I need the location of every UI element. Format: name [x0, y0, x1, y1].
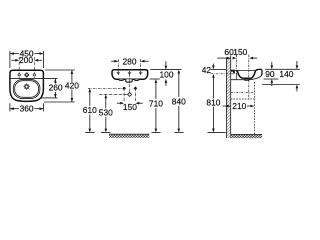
bowl section [237, 71, 255, 79]
svg-text:280: 280 [123, 56, 137, 66]
wall face extension tick [230, 55, 232, 57]
svg-text:150: 150 [123, 102, 137, 112]
rim extension left [211, 68, 227, 70]
dim 280 [111, 60, 149, 62]
side view labels [202, 47, 294, 111]
drain plan [23, 83, 30, 90]
svg-text:200: 200 [19, 55, 33, 65]
dim 420 extension lines [44, 70, 75, 102]
drain axis vertical [129, 74, 131, 92]
tap hole left [18, 74, 20, 76]
tap hole center [25, 73, 29, 77]
bowl outer [13, 79, 40, 98]
dim 260 bottom extension [40, 97, 58, 99]
dim 90 arrows [271, 62, 273, 66]
basin underside [231, 76, 261, 80]
dim 810 [212, 74, 215, 78]
bowl inner [15, 81, 39, 98]
deck top line [231, 70, 258, 72]
left view labels [19, 49, 79, 114]
svg-text:42: 42 [202, 65, 212, 75]
dim 150 [117, 102, 143, 104]
svg-text:100: 100 [160, 69, 174, 79]
pedestal hidden bottom [231, 98, 255, 100]
ground middle [109, 134, 149, 138]
svg-text:90: 90 [265, 69, 275, 79]
dim 280 extension lines [118, 59, 140, 71]
dim 450 [10, 53, 44, 55]
svg-text:420: 420 [65, 81, 79, 91]
dim 200 [11, 59, 42, 61]
svg-text:260: 260 [49, 83, 63, 93]
supply level dash-dot left [211, 73, 236, 75]
tap hole right [33, 74, 35, 76]
dim 100 arrows [165, 61, 167, 65]
dim 840 [178, 73, 180, 128]
tap axis side [236, 55, 238, 75]
front lip hook [255, 69, 262, 76]
dim 200 extension (tap axes) [19, 57, 34, 78]
svg-text:610: 610 [83, 105, 97, 115]
trap cover tab [126, 79, 133, 82]
dim 450 extension lines [10, 51, 44, 68]
supply centerline horizontal [88, 87, 124, 89]
dim 210 [223, 105, 251, 107]
deck line / 260 top extension [10, 77, 57, 79]
pedestal hidden front edge [253, 82, 255, 134]
svg-text:810: 810 [206, 97, 220, 107]
dim 360 extension lines [10, 103, 44, 111]
dim 140 arrows [296, 61, 298, 65]
dim 420 [71, 70, 73, 102]
drain level dash-dot side [231, 92, 255, 94]
svg-text:210: 210 [232, 101, 246, 111]
basin front outline [112, 70, 148, 80]
dim 610 [89, 92, 91, 129]
foot bump left [118, 79, 124, 80]
middle view labels [83, 56, 186, 117]
dim 42 top arrow [212, 64, 214, 66]
dim 260 [54, 79, 56, 98]
rim extension line (100/840 top) [150, 69, 181, 71]
drain point [128, 92, 132, 96]
foot bump right [134, 79, 140, 80]
ground side [231, 134, 262, 138]
drain centerline horizontal [99, 93, 127, 95]
wall [226, 57, 230, 138]
dim 530 [105, 98, 107, 129]
dim 90 extensions [262, 69, 300, 84]
drain fitting [245, 79, 249, 81]
dim 60/150 line [217, 57, 257, 59]
dim 710 [155, 83, 157, 129]
dim 360 [10, 108, 44, 110]
svg-text:530: 530 [99, 108, 113, 118]
svg-text:710: 710 [149, 98, 163, 108]
drain axis side [248, 55, 250, 100]
svg-text:360: 360 [20, 104, 34, 114]
supply point right [134, 87, 138, 91]
mounting bracket at wall [231, 70, 235, 74]
svg-text:840: 840 [172, 96, 186, 106]
overflow channel back line [236, 73, 238, 80]
supply axes vertical [124, 88, 135, 101]
tap holes front [117, 71, 143, 75]
bottom extension line (100 bottom / 710 top) [150, 78, 160, 80]
supply point left [122, 87, 126, 91]
svg-text:150: 150 [233, 47, 247, 57]
svg-text:140: 140 [279, 69, 293, 79]
basin outline plan [10, 70, 44, 101]
